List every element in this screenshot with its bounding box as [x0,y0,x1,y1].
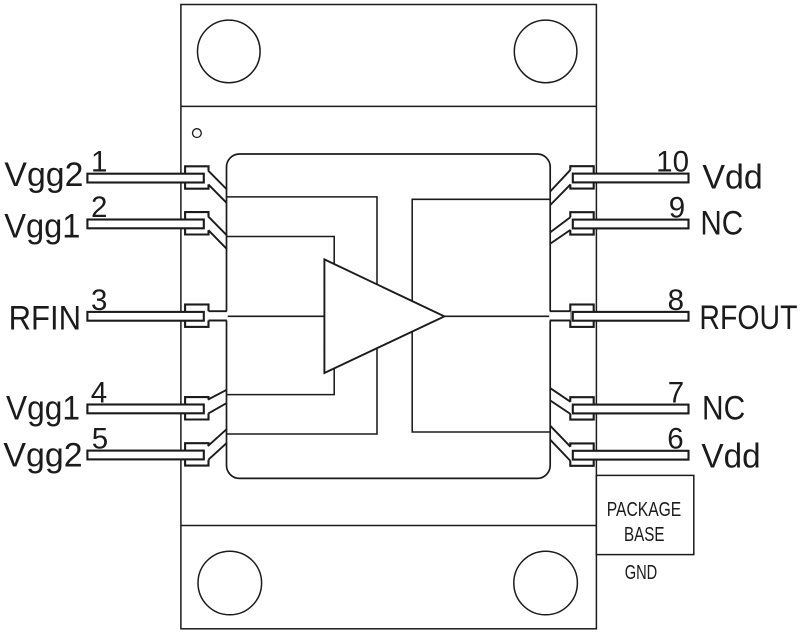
svg-text:10: 10 [656,145,689,178]
svg-text:RFOUT: RFOUT [699,299,797,337]
svg-text:NC: NC [700,204,743,242]
svg-text:5: 5 [92,423,108,456]
svg-text:NC: NC [702,389,745,427]
svg-text:6: 6 [667,423,683,456]
svg-text:Vdd: Vdd [702,159,762,197]
svg-text:GND: GND [625,561,658,584]
svg-text:7: 7 [668,377,684,410]
svg-text:2: 2 [91,191,107,224]
svg-text:PACKAGE: PACKAGE [607,498,682,521]
svg-text:BASE: BASE [624,523,665,546]
svg-text:9: 9 [669,191,685,224]
svg-text:RFIN: RFIN [9,299,81,337]
svg-text:8: 8 [668,284,684,317]
svg-text:4: 4 [91,377,107,410]
svg-text:Vdd: Vdd [701,437,760,475]
svg-text:Vgg2: Vgg2 [4,156,83,194]
svg-text:Vgg1: Vgg1 [6,389,80,427]
svg-text:Vgg1: Vgg1 [4,208,80,246]
svg-text:3: 3 [91,284,107,317]
svg-text:1: 1 [91,146,107,179]
svg-text:Vgg2: Vgg2 [3,436,82,474]
